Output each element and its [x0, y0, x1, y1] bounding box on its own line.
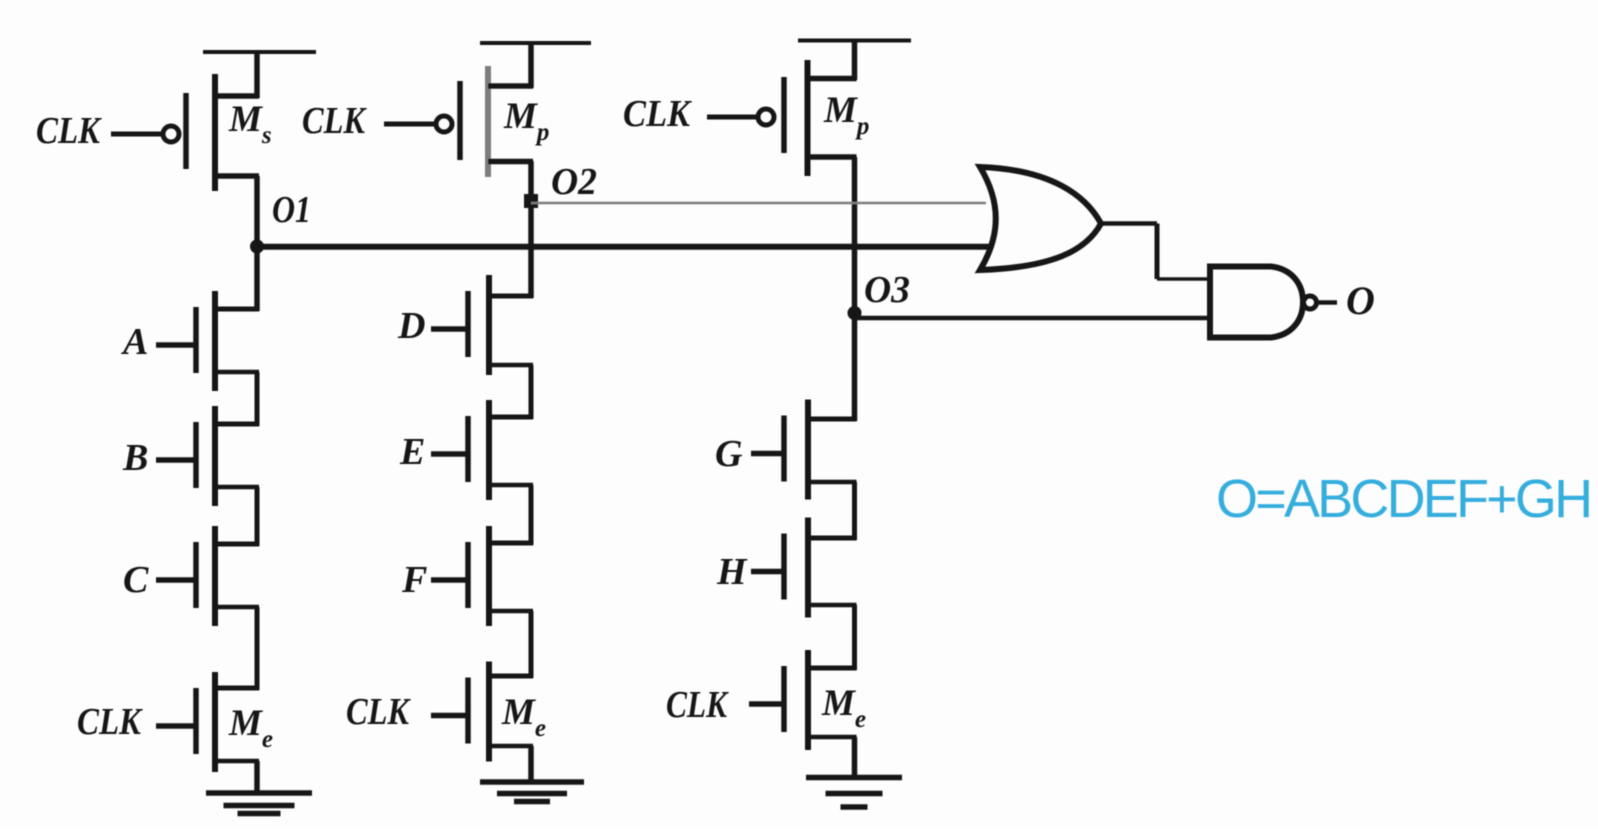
wire B source to C drain — [255, 487, 260, 546]
pmos precharge transistor Ms — [111, 74, 259, 191]
svg-text:O1: O1 — [272, 189, 311, 231]
svg-text:CLK: CLK — [302, 100, 367, 142]
svg-text:Ms: Ms — [228, 99, 272, 149]
evaluate transistor Me stack2 — [431, 662, 533, 762]
nand-gate U2 — [1210, 267, 1303, 338]
svg-text:H: H — [716, 551, 748, 593]
node O3 junction dot — [848, 306, 862, 320]
wire Ms drain to node O1 — [254, 176, 260, 248]
pmos precharge transistor Mp stack2 — [384, 66, 533, 177]
wire Me2 source to ground — [528, 746, 534, 782]
wire node O1 to OR gate input (net O1) — [257, 244, 991, 250]
or-gate U1 — [980, 167, 1101, 270]
wire G source to H drain — [852, 482, 857, 540]
svg-text:Mp: Mp — [503, 96, 549, 146]
wire VDD to Mp3 source — [852, 39, 858, 80]
transistor G (nmos) — [751, 400, 857, 500]
power rail VDD stack3 — [798, 39, 911, 43]
ground stack2 — [480, 782, 584, 802]
wire node O3 to NAND gate input (net O3) — [855, 316, 1211, 321]
transistor H (nmos) — [751, 518, 857, 618]
transistor F (nmos) — [431, 526, 533, 626]
svg-text:G: G — [715, 433, 743, 475]
svg-text:CLK: CLK — [77, 701, 143, 743]
wire node O1 to A drain — [254, 246, 260, 311]
wire Mp3 drain to node O3 — [852, 157, 858, 314]
svg-text:Mp: Mp — [823, 90, 869, 140]
svg-text:C: C — [123, 559, 149, 601]
wire node O2 to OR gate input (net O2) — [531, 202, 986, 205]
transistor E (nmos) — [431, 400, 533, 500]
wire VDD to Mp2 source — [528, 41, 534, 88]
wire VDD to Ms source — [254, 50, 260, 98]
wire Me3 source to ground — [852, 737, 858, 778]
svg-text:F: F — [401, 559, 427, 601]
wire OR output to NAND input — [1157, 277, 1210, 281]
svg-text:O=ABCDEF+GH: O=ABCDEF+GH — [1216, 469, 1590, 529]
transistor C (nmos) — [156, 526, 259, 626]
wire Me1 source to ground — [254, 761, 260, 793]
transistor B (nmos) — [156, 406, 259, 506]
svg-text:Me: Me — [501, 692, 546, 742]
pmos precharge transistor Mp stack3 — [707, 60, 857, 176]
svg-text:O3: O3 — [864, 269, 910, 311]
svg-text:CLK: CLK — [623, 93, 692, 135]
svg-text:CLK: CLK — [36, 110, 102, 152]
power rail VDD stack2 — [480, 41, 591, 45]
transistor D (nmos) — [431, 275, 533, 375]
transistor A (nmos) — [156, 291, 259, 391]
wire A source to B drain — [255, 372, 260, 426]
svg-text:CLK: CLK — [346, 691, 411, 733]
power rail VDD stack1 — [203, 50, 316, 54]
evaluate transistor Me stack1 — [156, 672, 259, 772]
wire node O3 to G drain — [852, 312, 858, 421]
wire OR output down — [1155, 224, 1160, 280]
svg-text:CLK: CLK — [666, 684, 729, 726]
wire NAND output — [1317, 300, 1337, 305]
node O1 junction dot — [250, 240, 264, 254]
svg-text:D: D — [397, 305, 425, 347]
svg-text:O2: O2 — [551, 161, 597, 203]
svg-text:Me: Me — [821, 683, 866, 733]
wire Mp2 drain to node O2 — [528, 161, 534, 203]
nand output bubble — [1304, 296, 1317, 309]
wire E source to F drain — [529, 485, 534, 545]
svg-text:E: E — [399, 431, 425, 473]
ground stack3 — [806, 778, 902, 808]
evaluate transistor Me stack3 — [749, 650, 857, 750]
wire D source to E drain — [529, 365, 534, 419]
wire OR output — [1098, 221, 1157, 226]
wire node O2 to D drain — [528, 201, 534, 298]
wire F source to Me2 drain — [529, 611, 534, 678]
node O2 junction dot — [524, 194, 538, 208]
wire H source to Me3 drain — [852, 605, 857, 670]
ground stack1 — [206, 793, 312, 814]
svg-text:A: A — [121, 321, 148, 363]
svg-text:O: O — [1346, 278, 1375, 323]
wire C source to Me drain — [255, 607, 260, 690]
svg-text:Me: Me — [228, 703, 273, 753]
svg-text:B: B — [122, 437, 148, 479]
